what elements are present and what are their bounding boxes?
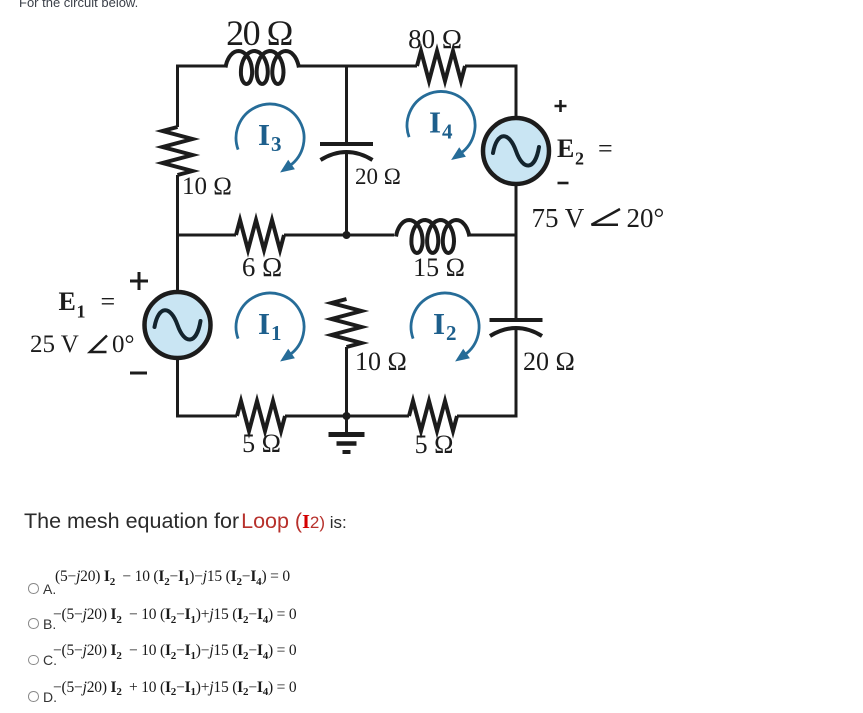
plus sign E2 (555, 100, 567, 112)
minus sign E2 (558, 182, 569, 185)
option A equation (55, 568, 290, 586)
option C equation (53, 642, 296, 660)
wire mid horizontal center-to-15ohm (347, 234, 395, 237)
wire right vertical cap-to-bottom (457, 328, 516, 416)
circuit schematic SVG (0, 0, 700, 490)
resistor 80ohm top (417, 51, 465, 81)
option B radio (28, 618, 39, 629)
svg-text:20 Ω: 20 Ω (523, 347, 575, 376)
wire top-left horizontal (178, 66, 226, 127)
question line (24, 509, 347, 534)
wire left mid horizontal to 6ohm (178, 234, 237, 237)
junction dot mid-center (343, 231, 351, 239)
source E2 circle (483, 118, 549, 184)
svg-text:I: I (258, 117, 270, 152)
svg-text:10 Ω: 10 Ω (182, 173, 232, 200)
angle symbol for 75V (592, 209, 621, 225)
svg-text:25 V: 25 V (30, 331, 79, 358)
svg-text:20°: 20° (627, 203, 665, 233)
mesh loop I1 arrow (236, 293, 304, 355)
svg-text:I: I (433, 306, 445, 341)
mesh loop I4 arrow (407, 92, 475, 154)
svg-text:3: 3 (271, 132, 282, 156)
svg-text:2: 2 (446, 321, 457, 345)
inductor L 20ohm top-left (226, 51, 299, 84)
source E1 sine (155, 310, 201, 339)
svg-text:=: = (598, 134, 613, 163)
svg-text:80 Ω: 80 Ω (408, 24, 462, 54)
svg-text:E: E (59, 287, 76, 316)
option A radio (28, 583, 39, 594)
option D radio (28, 691, 39, 702)
wire bottom left (178, 358, 238, 416)
label I3 (258, 105, 457, 346)
svg-text:15 Ω: 15 Ω (413, 253, 465, 282)
capacitor 20ohm middle: flat plate (320, 142, 373, 146)
capacitor 20ohm right: flat plate (490, 318, 543, 322)
minus sign E1 (130, 372, 147, 375)
source E2 sine (493, 136, 539, 165)
svg-text:20 Ω: 20 Ω (226, 13, 292, 53)
svg-text:I: I (258, 306, 270, 341)
svg-text:2: 2 (575, 149, 584, 169)
mesh loop I2 arrow (411, 293, 479, 355)
option B equation (53, 606, 296, 624)
header text (clipped at top) (19, 0, 138, 10)
svg-text:10 Ω: 10 Ω (355, 347, 407, 376)
source E1 circle (145, 292, 211, 358)
svg-text:6 Ω: 6 Ω (242, 252, 282, 282)
wire mid vertical top (345, 66, 348, 144)
inductor L 15ohm middle-right (396, 220, 469, 253)
svg-text:1: 1 (271, 321, 282, 345)
option D equation (53, 679, 296, 697)
svg-text:20 Ω: 20 Ω (355, 164, 401, 189)
wire top-mid horizontal (298, 65, 417, 68)
resistor 10ohm mid vertical (332, 299, 362, 347)
svg-text:5 Ω: 5 Ω (415, 430, 454, 459)
junction dot bottom-center (343, 412, 351, 420)
wire mid horizontal 15ohm-to-right (469, 234, 516, 237)
wire mid vertical res-to-bottom (345, 347, 348, 416)
resistor 5ohm bottom-right (409, 401, 457, 431)
svg-text:75 V: 75 V (532, 203, 585, 233)
option C radio (28, 655, 39, 666)
svg-text:E: E (557, 134, 574, 163)
angle symbol for 25V (90, 336, 107, 353)
wire left vertical res-to-mid (176, 175, 179, 292)
wire mid horizontal 6ohm-to-center (284, 234, 347, 237)
plus sign E1 (130, 272, 148, 290)
capacitor 20ohm right: curved plate (490, 328, 542, 336)
capacitor 20ohm middle: curved plate (321, 152, 373, 160)
svg-text:=: = (101, 287, 116, 316)
svg-text:I: I (429, 105, 441, 140)
svg-text:0°: 0° (112, 331, 135, 358)
wire top-right horizontal (465, 66, 516, 118)
wire right vertical E2-to-cap (515, 184, 518, 320)
svg-text:1: 1 (77, 302, 86, 322)
resistor 6ohm mid (236, 220, 284, 250)
resistor 10ohm left vertical (163, 127, 193, 175)
wire mid vertical cap-to-mid (345, 152, 348, 235)
svg-text:4: 4 (442, 120, 453, 144)
resistor 5ohm bottom-left (237, 401, 285, 431)
wire bottom mid-left (285, 415, 409, 418)
svg-text:5 Ω: 5 Ω (242, 429, 281, 458)
ground symbol (329, 416, 365, 452)
mesh loop I3 arrow (236, 104, 304, 166)
